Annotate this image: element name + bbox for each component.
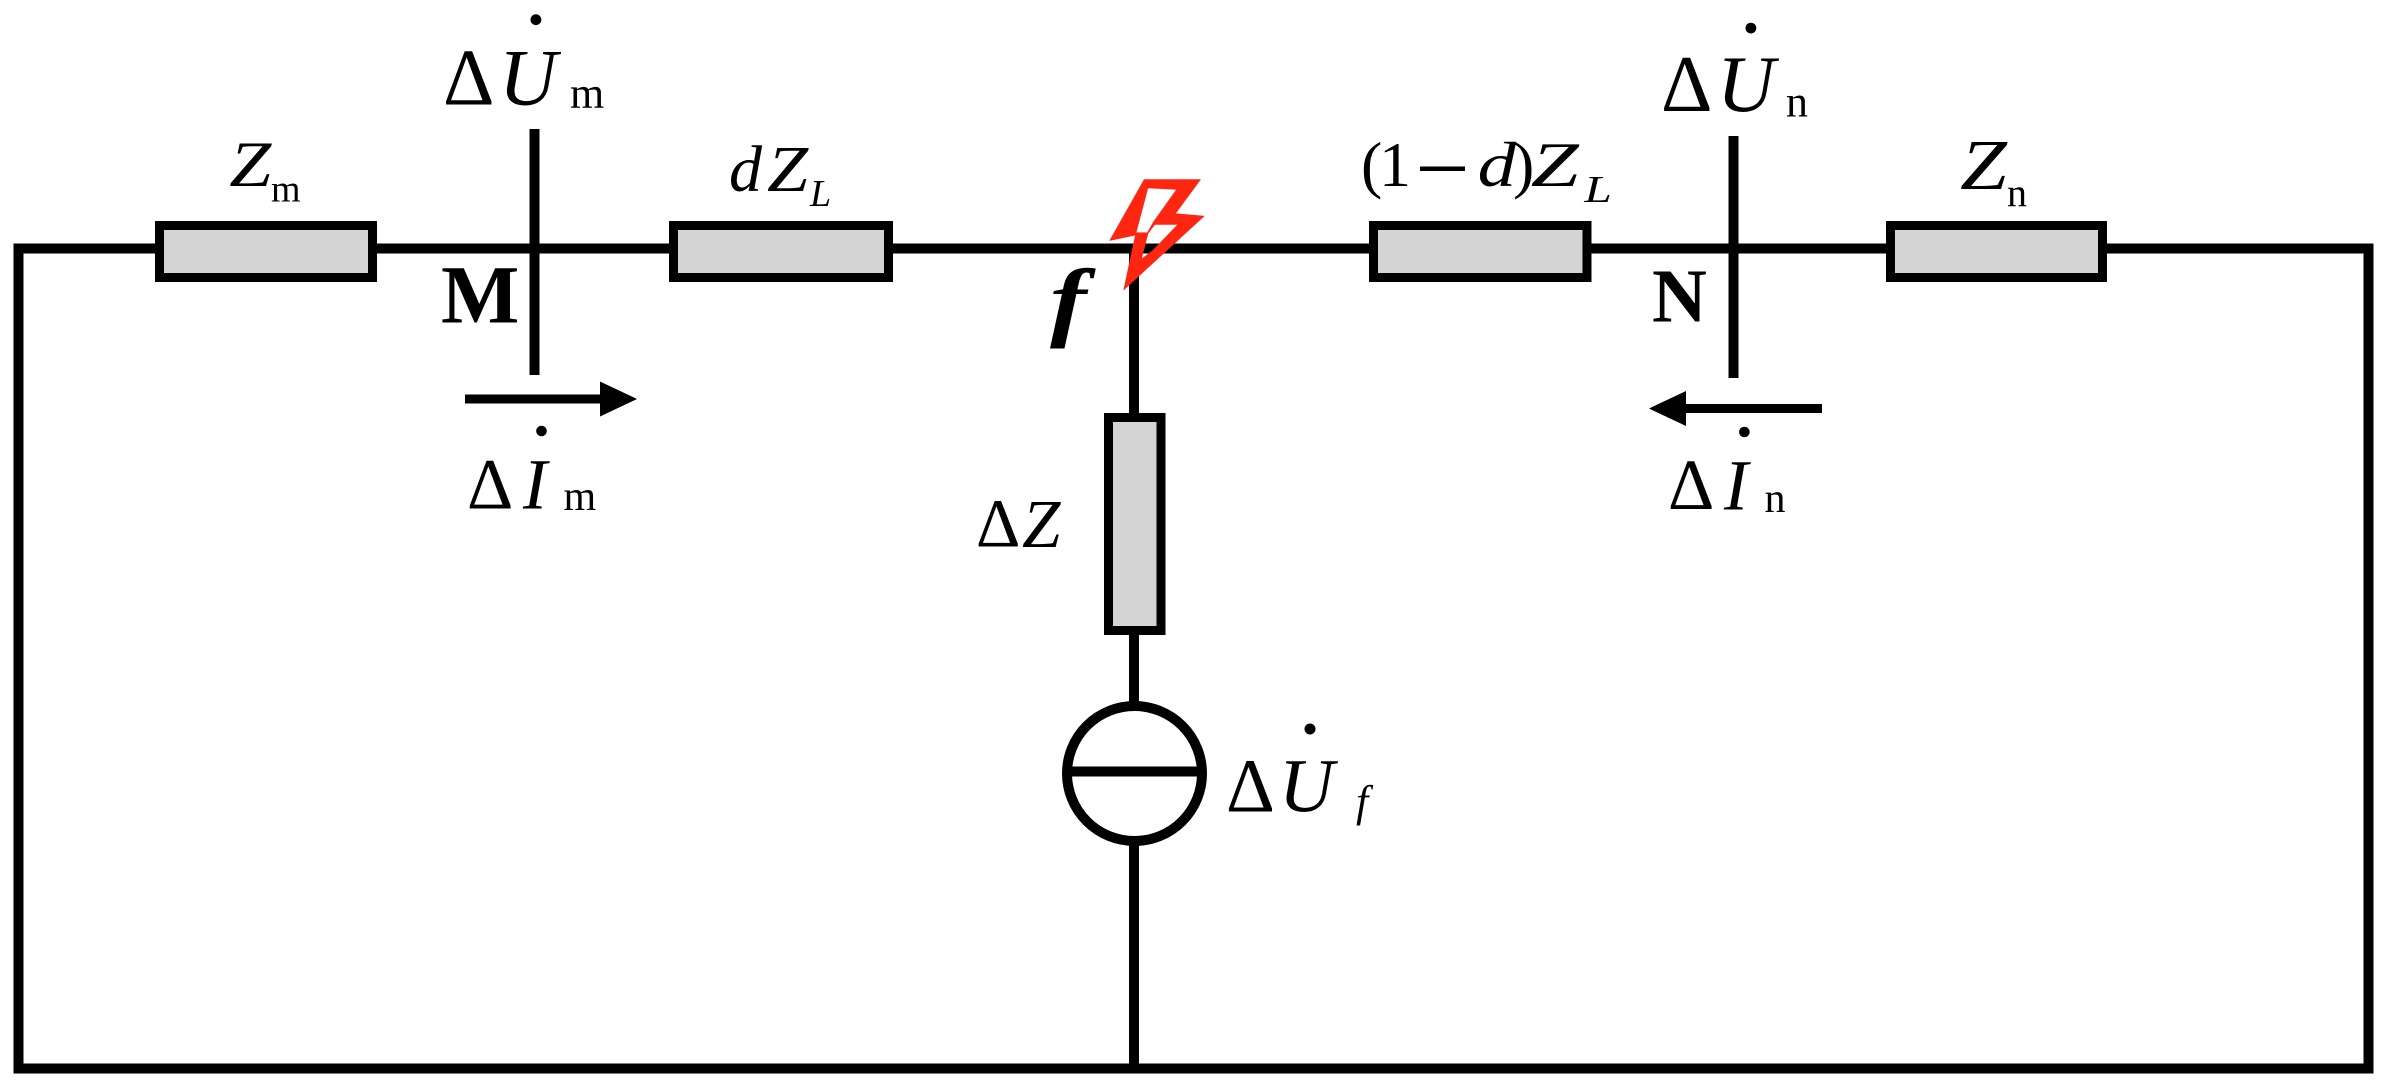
node N bus <box>1729 136 1739 378</box>
resistor dZ (fault impedance) <box>1109 418 1162 631</box>
wire outer loop <box>19 249 2369 1069</box>
svg-text:N: N <box>1652 255 1707 339</box>
svg-text:Δ: Δ <box>1661 41 1712 129</box>
svg-text:1: 1 <box>1379 129 1411 200</box>
wire fault branch vertical <box>1129 253 1139 1064</box>
svg-text:I: I <box>1723 446 1751 526</box>
resistor (1-d)ZL <box>1374 226 1588 278</box>
svg-text:Z: Z <box>1531 130 1580 201</box>
source chord <box>1063 767 1206 777</box>
arrow dIn <box>1686 404 1822 413</box>
svg-text:m: m <box>570 69 604 118</box>
arrow dIm <box>465 395 601 404</box>
svg-text:Δ: Δ <box>1226 745 1275 829</box>
svg-text:m: m <box>271 169 301 211</box>
svg-text:M: M <box>441 249 519 341</box>
svg-text:d: d <box>1478 130 1517 201</box>
source dUf circle <box>1067 706 1202 841</box>
fault lightning bolt <box>1111 180 1203 289</box>
svg-text:Z: Z <box>767 134 809 207</box>
svg-text:I: I <box>522 445 550 525</box>
resistor Zm <box>160 226 373 278</box>
svg-text:Δ: Δ <box>1668 445 1714 525</box>
svg-text:Z: Z <box>1960 125 2008 205</box>
svg-text:L: L <box>1583 168 1612 210</box>
resistor dZL <box>674 226 889 278</box>
svg-text:Δ: Δ <box>443 35 494 123</box>
svg-text:m: m <box>564 474 597 520</box>
svg-text:Z: Z <box>1022 486 1061 562</box>
svg-text:n: n <box>2007 170 2027 215</box>
svg-text:n: n <box>1765 476 1786 522</box>
svg-text:U: U <box>1717 41 1780 129</box>
resistor Zn <box>1891 226 2103 278</box>
svg-text:L: L <box>809 173 831 215</box>
svg-text:U: U <box>1279 745 1338 829</box>
node M bus <box>530 129 540 375</box>
svg-text:Δ: Δ <box>467 445 513 525</box>
svg-text:n: n <box>1786 78 1808 127</box>
svg-text:Z: Z <box>229 129 272 201</box>
svg-text:d: d <box>729 133 763 206</box>
svg-text:Δ: Δ <box>976 486 1020 562</box>
svg-text:U: U <box>499 35 562 123</box>
